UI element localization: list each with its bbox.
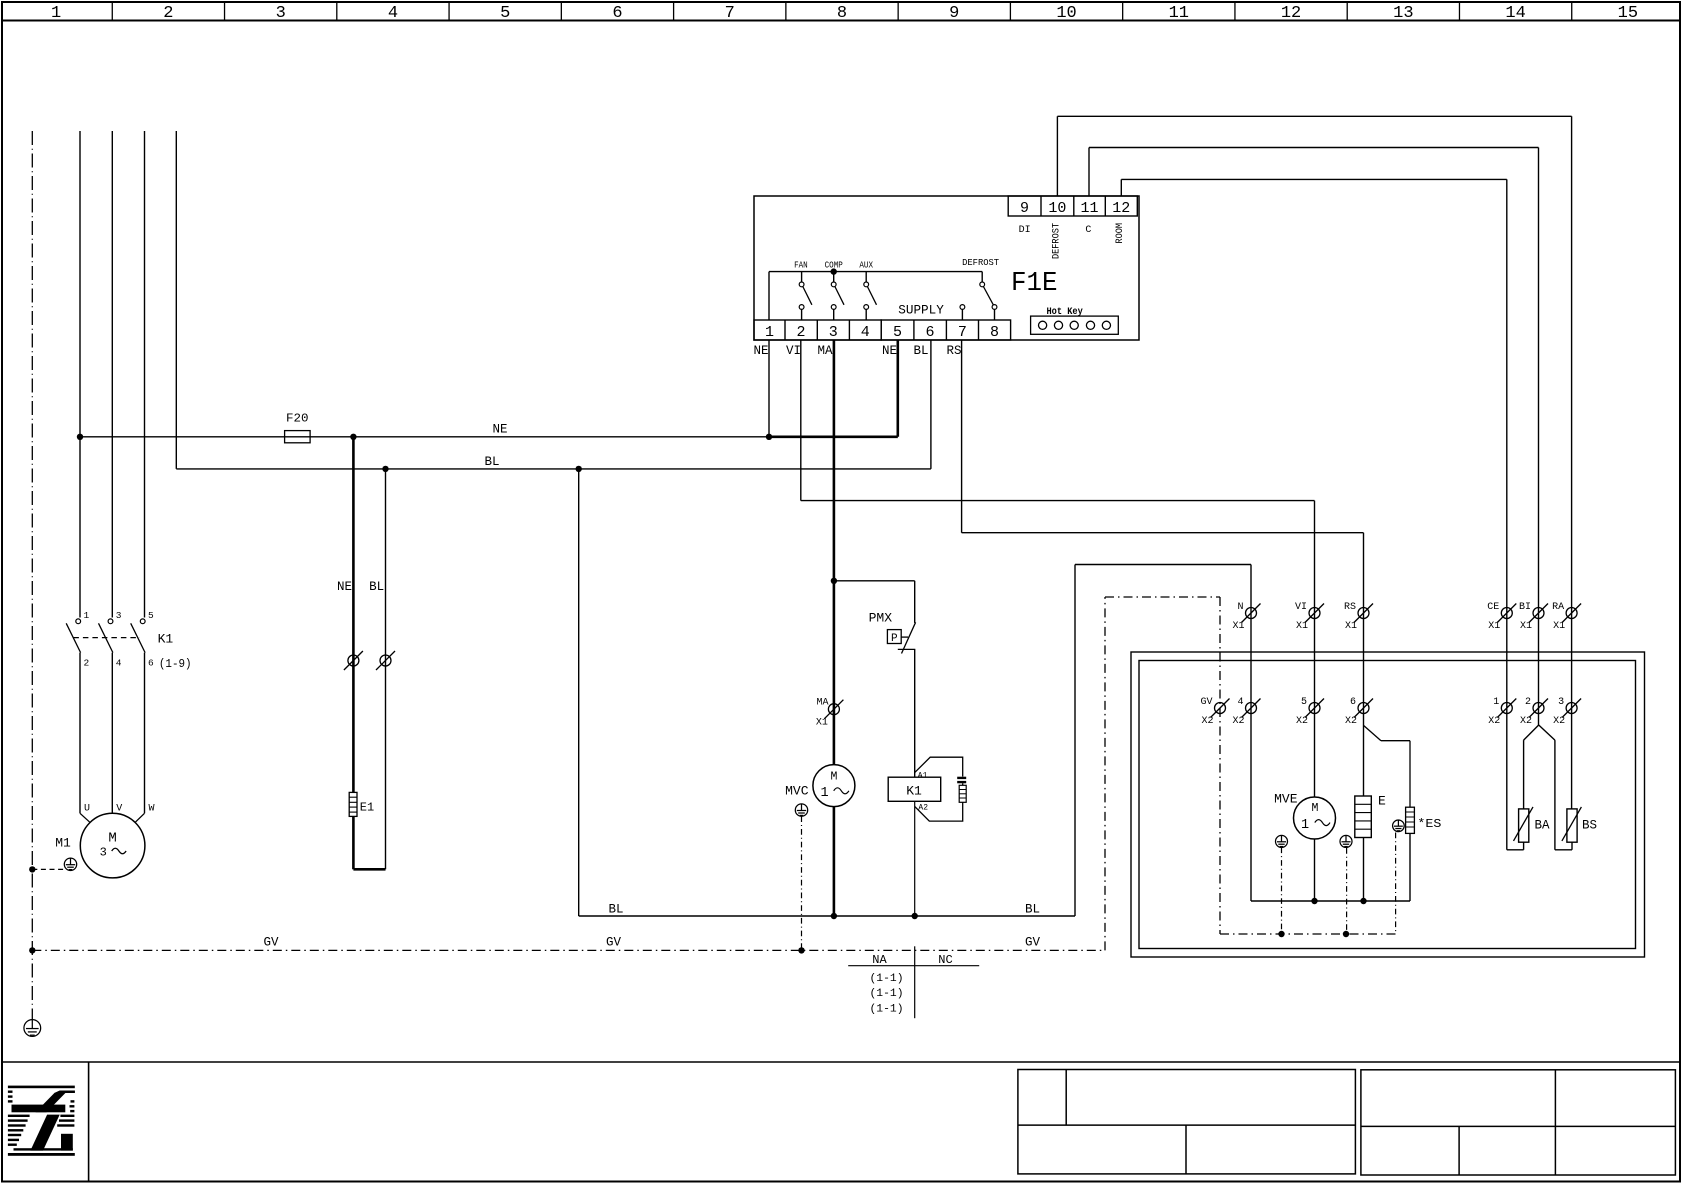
svg-text:(1-1): (1-1) — [870, 988, 904, 1000]
svg-text:DEFROST: DEFROST — [962, 257, 999, 268]
svg-text:Hot Key: Hot Key — [1047, 307, 1083, 318]
svg-text:RS: RS — [1344, 602, 1356, 613]
svg-text:C: C — [1085, 225, 1091, 236]
svg-text:1: 1 — [84, 610, 90, 621]
svg-text:10: 10 — [1056, 4, 1076, 23]
svg-text:(1-1): (1-1) — [870, 973, 904, 985]
svg-text:VI: VI — [786, 344, 801, 358]
svg-text:X2: X2 — [1520, 716, 1532, 727]
svg-text:12: 12 — [1112, 200, 1130, 217]
svg-text:2: 2 — [163, 4, 173, 23]
svg-text:DEFROST: DEFROST — [1052, 223, 1063, 259]
svg-text:MVE: MVE — [1274, 792, 1298, 807]
svg-text:X2: X2 — [1232, 716, 1244, 727]
svg-text:GV: GV — [263, 936, 279, 950]
svg-text:1: 1 — [1301, 818, 1309, 833]
svg-text:5: 5 — [1301, 697, 1307, 708]
svg-text:FAN: FAN — [794, 259, 808, 270]
svg-text:10: 10 — [1048, 200, 1066, 217]
svg-text:2: 2 — [796, 324, 805, 341]
svg-text:13: 13 — [1393, 4, 1413, 23]
svg-text:X2: X2 — [1488, 716, 1500, 727]
svg-text:5: 5 — [500, 4, 510, 23]
svg-text:DI: DI — [1019, 225, 1031, 236]
svg-text:GV: GV — [1025, 936, 1041, 950]
svg-text:(1-9): (1-9) — [159, 657, 192, 671]
svg-text:9: 9 — [1020, 200, 1029, 217]
svg-text:BI: BI — [1519, 602, 1531, 613]
svg-text:11: 11 — [1169, 4, 1189, 23]
svg-text:11: 11 — [1080, 200, 1098, 217]
svg-text:NA: NA — [872, 953, 887, 967]
svg-text:9: 9 — [949, 4, 959, 23]
svg-text:BS: BS — [1582, 818, 1597, 832]
svg-text:ROOM: ROOM — [1115, 223, 1126, 244]
svg-text:X1: X1 — [1232, 621, 1244, 632]
svg-text:4: 4 — [861, 324, 870, 341]
svg-text:K1: K1 — [906, 784, 922, 799]
svg-text:SUPPLY: SUPPLY — [898, 303, 944, 318]
svg-text:AUX: AUX — [859, 259, 873, 270]
svg-text:6: 6 — [925, 324, 934, 341]
svg-text:X1: X1 — [1345, 621, 1357, 632]
svg-text:3: 3 — [276, 4, 286, 23]
svg-text:BL: BL — [484, 455, 499, 469]
svg-text:(1-1): (1-1) — [870, 1003, 904, 1015]
svg-text:6: 6 — [148, 658, 154, 669]
svg-text:RS: RS — [947, 344, 962, 358]
svg-text:M: M — [830, 770, 837, 783]
svg-text:BL: BL — [1025, 903, 1040, 917]
svg-text:1: 1 — [820, 786, 828, 801]
svg-text:1: 1 — [51, 4, 61, 23]
svg-text:5: 5 — [893, 324, 902, 341]
svg-text:4: 4 — [388, 4, 398, 23]
svg-text:MVC: MVC — [785, 784, 809, 799]
svg-text:GV: GV — [1200, 697, 1212, 708]
svg-text:CE: CE — [1487, 602, 1499, 613]
svg-text:VI: VI — [1295, 602, 1307, 613]
svg-text:M: M — [1312, 802, 1319, 815]
svg-text:X2: X2 — [1553, 716, 1565, 727]
svg-text:X1: X1 — [1553, 621, 1565, 632]
svg-text:BA: BA — [1535, 818, 1551, 832]
svg-text:6: 6 — [612, 4, 622, 23]
svg-text:M1: M1 — [55, 836, 71, 851]
svg-text:8: 8 — [990, 324, 999, 341]
svg-text:4: 4 — [116, 658, 122, 669]
svg-text:5: 5 — [148, 610, 154, 621]
svg-text:W: W — [149, 804, 155, 815]
svg-text:M: M — [108, 831, 116, 847]
svg-text:X2: X2 — [1296, 716, 1308, 727]
svg-text:2: 2 — [84, 658, 90, 669]
svg-text:8: 8 — [837, 4, 847, 23]
svg-text:BL: BL — [369, 580, 384, 594]
svg-text:3: 3 — [100, 846, 107, 860]
svg-text:12: 12 — [1281, 4, 1301, 23]
svg-text:MA: MA — [818, 344, 834, 358]
svg-text:3: 3 — [829, 324, 838, 341]
svg-text:F1E: F1E — [1011, 269, 1058, 299]
svg-text:N: N — [1237, 602, 1243, 613]
svg-text:7: 7 — [725, 4, 735, 23]
svg-text:1: 1 — [1493, 697, 1499, 708]
svg-text:X1: X1 — [1520, 621, 1532, 632]
svg-text:*ES: *ES — [1417, 817, 1441, 831]
svg-text:PMX: PMX — [869, 611, 893, 626]
svg-text:NE: NE — [337, 580, 352, 594]
svg-text:V: V — [116, 804, 122, 815]
svg-text:NE: NE — [882, 344, 897, 358]
svg-text:BL: BL — [914, 344, 929, 358]
svg-text:7: 7 — [958, 324, 967, 341]
svg-text:F20: F20 — [286, 412, 309, 426]
svg-text:RA: RA — [1552, 602, 1564, 613]
svg-text:3: 3 — [1558, 697, 1564, 708]
svg-text:K1: K1 — [158, 631, 174, 646]
svg-text:U: U — [84, 804, 90, 815]
svg-text:A1: A1 — [918, 772, 928, 781]
svg-text:NC: NC — [938, 953, 952, 967]
svg-text:14: 14 — [1505, 4, 1525, 23]
svg-text:6: 6 — [1350, 697, 1356, 708]
svg-text:2: 2 — [1525, 697, 1531, 708]
svg-text:X1: X1 — [1488, 621, 1500, 632]
svg-text:X2: X2 — [1345, 716, 1357, 727]
svg-text:P: P — [891, 633, 898, 645]
svg-text:NE: NE — [754, 344, 769, 358]
svg-text:GV: GV — [606, 936, 622, 950]
svg-text:3: 3 — [116, 610, 122, 621]
svg-text:BL: BL — [608, 903, 623, 917]
svg-text:X1: X1 — [1296, 621, 1308, 632]
svg-text:15: 15 — [1618, 4, 1638, 23]
svg-text:NE: NE — [492, 423, 507, 437]
svg-text:X2: X2 — [1201, 716, 1213, 727]
svg-text:MA: MA — [816, 698, 828, 709]
svg-text:4: 4 — [1237, 697, 1243, 708]
svg-text:X1: X1 — [816, 718, 828, 729]
svg-text:1: 1 — [765, 324, 774, 341]
svg-text:COMP: COMP — [825, 259, 843, 270]
svg-text:E: E — [1378, 794, 1386, 809]
svg-text:E1: E1 — [360, 801, 374, 815]
